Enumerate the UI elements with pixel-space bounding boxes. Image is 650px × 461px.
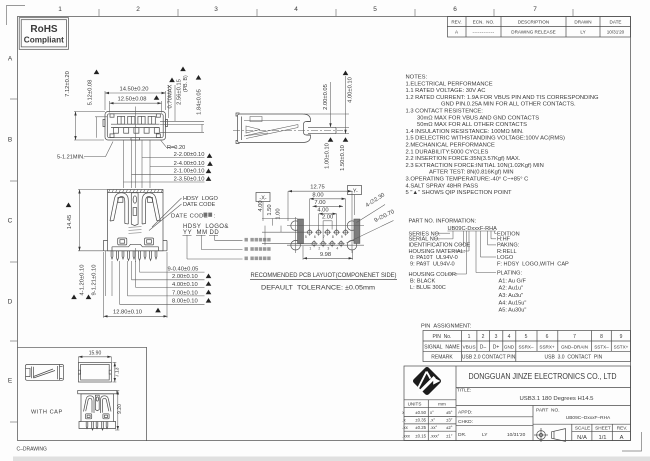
svg-text:A4: Au15u": A4: Au15u" xyxy=(499,300,527,306)
svg-text:A1: Au G/F: A1: Au G/F xyxy=(499,279,527,285)
svg-text:APPD:: APPD: xyxy=(458,410,472,416)
svg-text:±3°: ±3° xyxy=(446,418,453,423)
svg-text:6: 6 xyxy=(314,235,316,239)
svg-text:5: 5 xyxy=(305,235,307,239)
svg-text:4.SALT SPRAY 48HR PASS: 4.SALT SPRAY 48HR PASS xyxy=(406,183,479,189)
svg-text:AFTER TEST: 8N(0.816Kgf) MIN: AFTER TEST: 8N(0.816Kgf) MIN xyxy=(429,170,514,176)
svg-text:2: 2 xyxy=(318,247,320,251)
svg-text:DRAWN: DRAWN xyxy=(574,20,591,25)
svg-text:SSRX–: SSRX– xyxy=(518,344,534,349)
svg-text:5: 5 xyxy=(525,334,528,340)
svg-text:12.80±0.10: 12.80±0.10 xyxy=(113,309,142,315)
svg-text:2.56±0.15: 2.56±0.15 xyxy=(177,79,183,105)
svg-text:B: BLACK: B: BLACK xyxy=(410,278,435,284)
svg-text:L: BLUE 300C: L: BLUE 300C xyxy=(410,285,446,291)
svg-text:1.00±0.10: 1.00±0.10 xyxy=(325,143,331,169)
svg-text:1: 1 xyxy=(309,247,311,251)
svg-text:5-1.21MIN.: 5-1.21MIN. xyxy=(57,154,85,160)
svg-text:3: 3 xyxy=(214,6,218,13)
svg-text:LY: LY xyxy=(580,30,585,35)
svg-text:DR.: DR. xyxy=(458,432,466,438)
svg-text:1.50±0.10: 1.50±0.10 xyxy=(340,145,346,171)
svg-text:.x°: .x° xyxy=(430,418,435,423)
svg-text:Compliant: Compliant xyxy=(24,36,64,45)
svg-text:DEFAULT TOLERANCE: ±0.05mm: DEFAULT TOLERANCE: ±0.05mm xyxy=(261,284,376,291)
svg-text:VBUS: VBUS xyxy=(462,344,475,350)
svg-text:CHKD:: CHKD: xyxy=(458,419,473,425)
svg-text:14.50±0.20: 14.50±0.20 xyxy=(120,87,149,93)
svg-text:9: 9 xyxy=(341,235,343,239)
svg-text:3.OPERATING TEMPERATURE:-40° C: 3.OPERATING TEMPERATURE:-40° C~+85° C xyxy=(406,177,529,183)
svg-text:RECOMMENDED PCB LAYUOT(COMPONE: RECOMMENDED PCB LAYUOT(COMPONENET SIDE) xyxy=(251,272,397,279)
svg-text:A: A xyxy=(8,56,13,63)
svg-text:GND PIN.0.25A MIN FOR ALL OTHE: GND PIN.0.25A MIN FOR ALL OTHER CONTACTS… xyxy=(441,102,576,108)
svg-text:A2: Au1u": A2: Au1u" xyxy=(499,286,524,292)
svg-text:4: 4 xyxy=(336,247,338,251)
svg-text:2.00±0.10: 2.00±0.10 xyxy=(172,274,198,280)
svg-text:2-4.00±0.10: 2-4.00±0.10 xyxy=(174,161,205,167)
svg-text:USB 3.0 CONTACT PIN: USB 3.0 CONTACT PIN xyxy=(545,355,603,361)
svg-text:7: 7 xyxy=(573,334,576,340)
svg-text:YY: YY xyxy=(183,230,192,236)
svg-text:DATE CODE: DATE CODE xyxy=(171,213,208,219)
svg-text:10/31'20: 10/31'20 xyxy=(507,432,526,438)
svg-text:UB09C–DxxxF–RHA: UB09C–DxxxF–RHA xyxy=(566,415,611,421)
svg-text:D: D xyxy=(8,299,13,306)
svg-text:REMARK: REMARK xyxy=(431,355,453,361)
svg-text:2: 2 xyxy=(136,6,140,13)
svg-text:1.00: 1.00 xyxy=(276,208,282,219)
svg-text:1/1: 1/1 xyxy=(598,435,606,441)
svg-text:SIGNAL NAME: SIGNAL NAME xyxy=(424,344,460,350)
svg-text:12.50±0.08: 12.50±0.08 xyxy=(118,97,147,103)
svg-text:USB3.1 180 Degrees H14.5: USB3.1 180 Degrees H14.5 xyxy=(520,396,594,402)
svg-text:GND: GND xyxy=(504,344,515,349)
svg-text:1.1 RATED VOLTAGE: 30V AC: 1.1 RATED VOLTAGE: 30V AC xyxy=(406,88,486,94)
svg-text:.xxx: .xxx xyxy=(402,434,410,439)
svg-text:HOUSING COLOR:: HOUSING COLOR: xyxy=(409,272,459,278)
svg-text:WITH CAP: WITH CAP xyxy=(31,410,63,416)
svg-text:A: A xyxy=(620,435,624,441)
svg-text:1: 1 xyxy=(468,334,471,340)
svg-text:1.ELECTRICAL PERFORMANCE: 1.ELECTRICAL PERFORMANCE xyxy=(406,81,493,87)
svg-text:8: 8 xyxy=(332,235,334,239)
svg-text:IDENTIFICATION CODE: IDENTIFICATION CODE xyxy=(409,243,471,249)
svg-text:C–DRAWING: C–DRAWING xyxy=(17,446,47,452)
svg-text:8: 8 xyxy=(600,334,603,340)
svg-text:-Y-: -Y- xyxy=(351,188,358,194)
svg-text:SHEET: SHEET xyxy=(595,426,611,431)
svg-text:±0.50: ±0.50 xyxy=(415,410,426,415)
svg-text:F: HDSY LOGO,WITH CAP: F: HDSY LOGO,WITH CAP xyxy=(497,262,569,268)
svg-text:6: 6 xyxy=(546,334,549,340)
svg-text:2.MECHANICAL PERFORMANCE: 2.MECHANICAL PERFORMANCE xyxy=(406,143,495,149)
svg-text:±1°: ±1° xyxy=(446,434,453,439)
svg-text:DONGGUAN JINZE ELECTRONICS CO.: DONGGUAN JINZE ELECTRONICS CO., LTD xyxy=(469,372,617,381)
svg-text:1.50: 1.50 xyxy=(267,204,273,215)
svg-text:7.12±0.20: 7.12±0.20 xyxy=(65,71,71,97)
svg-text:4: 4 xyxy=(294,6,298,13)
svg-text:SSTX–: SSTX– xyxy=(594,344,609,349)
svg-text:9-1.21±0.10: 9-1.21±0.10 xyxy=(92,265,98,296)
svg-text:1.2 RATED CURRENT: 1.9A FOR VB: 1.2 RATED CURRENT: 1.9A FOR VBUS PIN AND… xyxy=(406,95,600,101)
svg-text:DATE CODE: DATE CODE xyxy=(183,202,215,208)
svg-text:5: 5 xyxy=(373,6,377,13)
svg-text:2-3.50±0.10: 2-3.50±0.10 xyxy=(174,176,205,182)
svg-text:2-1.00±0.10: 2-1.00±0.10 xyxy=(174,169,205,175)
svg-text:GND–DRAIN: GND–DRAIN xyxy=(561,344,588,349)
svg-text:4: 4 xyxy=(508,334,511,340)
svg-text:9.98: 9.98 xyxy=(320,252,331,258)
svg-text:ECN. NO.: ECN. NO. xyxy=(473,20,495,25)
svg-text:REV.: REV. xyxy=(617,426,628,431)
svg-text:±2°: ±2° xyxy=(446,425,453,430)
svg-text:5 "▲" SHOWS QIP INSPECTION POI: 5 "▲" SHOWS QIP INSPECTION POINT xyxy=(406,190,513,196)
svg-text:6: 6 xyxy=(453,6,457,13)
svg-text:8.00: 8.00 xyxy=(312,192,323,198)
svg-text:2.1 DURABILITY:5000 CYCLES: 2.1 DURABILITY:5000 CYCLES xyxy=(406,149,489,155)
svg-text:TITLE:: TITLE: xyxy=(457,387,471,393)
svg-text:DATE: DATE xyxy=(610,20,622,25)
svg-text:8.00±0.10: 8.00±0.10 xyxy=(172,299,198,305)
svg-text:E: E xyxy=(8,378,13,385)
svg-text:REV.: REV. xyxy=(451,20,461,25)
svg-text:1.3 CONTACT RESISTENCE:: 1.3 CONTACT RESISTENCE: xyxy=(406,109,484,115)
svg-text:PAKING:: PAKING: xyxy=(497,243,520,249)
svg-text:2.00: 2.00 xyxy=(322,215,333,221)
svg-text:9-0.40±0.05: 9-0.40±0.05 xyxy=(168,267,199,273)
svg-text:HOUSING MATERIAL:: HOUSING MATERIAL: xyxy=(409,249,466,255)
svg-text:-X-: -X- xyxy=(259,195,266,201)
svg-text:PIN ASSIGNMENT:: PIN ASSIGNMENT: xyxy=(421,324,472,330)
svg-text:4.00±0.10: 4.00±0.10 xyxy=(348,77,354,103)
svg-text:2.3 EXTRACTION FORCE:INITIAL 1: 2.3 EXTRACTION FORCE:INITIAL 10N(1.02Kgf… xyxy=(406,163,544,169)
svg-text:LY: LY xyxy=(482,432,488,438)
svg-text:1.84±0.05: 1.84±0.05 xyxy=(197,89,203,115)
svg-text:7.00±0.10: 7.00±0.10 xyxy=(172,290,198,296)
svg-text:DESCRIPTION: DESCRIPTION xyxy=(518,20,549,25)
svg-text:------------: ------------ xyxy=(473,30,495,35)
svg-text:4.00±0.10: 4.00±0.10 xyxy=(172,282,198,288)
svg-text:±5°: ±5° xyxy=(446,410,453,415)
svg-text:7: 7 xyxy=(533,6,537,13)
svg-text:N/A: N/A xyxy=(577,435,587,441)
svg-text:7.00: 7.00 xyxy=(314,200,325,206)
svg-text:D–: D– xyxy=(480,344,487,350)
svg-text:0: PA10T UL94V-0: 0: PA10T UL94V-0 xyxy=(410,255,458,261)
svg-text:DRAWING RELEASE: DRAWING RELEASE xyxy=(511,30,556,35)
svg-text:x°: x° xyxy=(430,410,434,415)
svg-text:R:RELL: R:RELL xyxy=(497,249,517,255)
svg-text:DD: DD xyxy=(210,230,220,236)
svg-text:C: C xyxy=(8,218,13,225)
svg-text:14.45: 14.45 xyxy=(67,215,73,230)
svg-text:1.5 DIELECTRIC WITHSTANDING VO: 1.5 DIELECTRIC WITHSTANDING VOLTAGE:100V… xyxy=(406,136,566,142)
svg-text:12.75: 12.75 xyxy=(310,185,325,191)
svg-text:A3: Au3u": A3: Au3u" xyxy=(499,293,524,299)
svg-text:PLATING:: PLATING: xyxy=(497,271,523,277)
svg-text:MM: MM xyxy=(197,230,208,236)
svg-text:UNITS: UNITS xyxy=(408,402,422,407)
svg-text:1.4 INSULATION RESISTANCE: 100: 1.4 INSULATION RESISTANCE: 100MΩ MIN. xyxy=(406,129,525,135)
svg-text:USB 2.0 CONTACT PIN: USB 2.0 CONTACT PIN xyxy=(462,355,516,361)
svg-text:2.00±0.05: 2.00±0.05 xyxy=(323,84,329,110)
svg-text:7.13: 7.13 xyxy=(114,367,120,377)
svg-text:±0.15: ±0.15 xyxy=(415,434,426,439)
svg-text:2.2 INSERTION FORCE:35N(3.57Kg: 2.2 INSERTION FORCE:35N(3.57Kgf) MAX. xyxy=(406,156,521,162)
svg-text:3: 3 xyxy=(495,334,498,340)
svg-text:SSTX+: SSTX+ xyxy=(614,344,629,349)
svg-text:5.12±0.08: 5.12±0.08 xyxy=(88,80,94,106)
svg-text:A5: Au30u": A5: Au30u" xyxy=(499,308,527,314)
svg-text:30mΩ MAX FOR VBUS AND GND CONT: 30mΩ MAX FOR VBUS AND GND CONTACTS xyxy=(417,115,539,121)
svg-text:3: 3 xyxy=(327,247,329,251)
svg-text:1: 1 xyxy=(58,6,62,13)
svg-text:mm: mm xyxy=(438,402,446,407)
svg-text:.xx°: .xx° xyxy=(430,425,437,430)
svg-text:D+: D+ xyxy=(493,344,500,350)
svg-text:PART NO. INFORMATION:: PART NO. INFORMATION: xyxy=(409,219,477,225)
svg-text:HDSY LOGO&: HDSY LOGO& xyxy=(183,224,229,230)
svg-text:4-1.20±0.10: 4-1.20±0.10 xyxy=(80,265,86,296)
svg-text:.xxx°: .xxx° xyxy=(430,434,440,439)
svg-text:50mΩ MAX FOR ALL OTHER CONTACT: 50mΩ MAX FOR ALL OTHER CONTACTS xyxy=(417,122,527,128)
svg-text:.xx: .xx xyxy=(402,425,408,430)
svg-text:2-2.00±0.10: 2-2.00±0.10 xyxy=(174,152,205,158)
svg-text:±0.25: ±0.25 xyxy=(415,425,426,430)
svg-text:15.90: 15.90 xyxy=(89,350,102,356)
svg-text:(PB. B): (PB. B) xyxy=(183,75,189,92)
svg-text:B: B xyxy=(8,137,12,144)
svg-text:2: 2 xyxy=(482,334,485,340)
svg-text:PART NO.: PART NO. xyxy=(536,408,560,414)
svg-text:±0.35: ±0.35 xyxy=(415,418,426,423)
svg-text:SCALE: SCALE xyxy=(575,426,590,431)
svg-text:NOTES:: NOTES: xyxy=(406,75,428,81)
svg-text:9: 9 xyxy=(620,334,623,340)
svg-text:10/31'20: 10/31'20 xyxy=(607,30,625,35)
svg-text:PIN No.: PIN No. xyxy=(433,334,452,340)
svg-text:LOGO: LOGO xyxy=(497,255,514,261)
svg-text:4.00: 4.00 xyxy=(317,207,328,213)
svg-text:SSRX+: SSRX+ xyxy=(539,344,555,349)
svg-text:RoHS: RoHS xyxy=(30,24,58,35)
svg-text:9: PA9T UL94V-0: 9: PA9T UL94V-0 xyxy=(410,262,455,268)
